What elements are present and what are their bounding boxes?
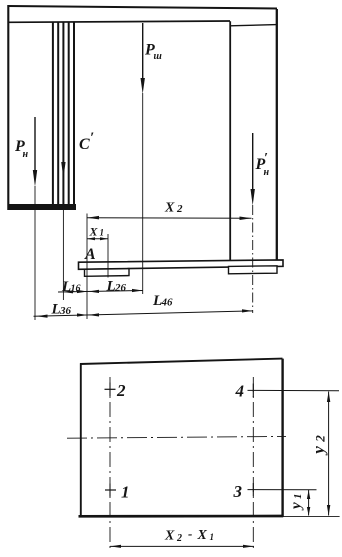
label X2 (upper) <box>164 201 183 216</box>
svg-text:A: A <box>84 246 96 263</box>
ram column line 5 <box>73 23 75 206</box>
svg-text:3: 3 <box>233 482 243 501</box>
force P'_H arrowhead <box>251 189 255 206</box>
label X1 (upper) <box>89 225 105 239</box>
C' axis extension line <box>62 205 64 300</box>
label P'_H <box>255 151 270 178</box>
P_H axis extension line <box>34 186 36 320</box>
L36 left arrow <box>37 315 48 318</box>
label point 1 <box>121 483 130 502</box>
L46 right arrow <box>242 309 253 312</box>
svg-text:y: y <box>309 446 328 456</box>
P_sh axis extension line <box>142 93 144 294</box>
right column inner edge <box>229 21 231 260</box>
svg-text:36: 36 <box>59 305 72 317</box>
point 3 cross vertical <box>252 483 254 496</box>
plate left edge <box>80 363 82 517</box>
svg-text:1: 1 <box>121 483 130 502</box>
dimension X2-X1 line <box>110 545 254 547</box>
svg-text:-: - <box>188 526 192 541</box>
svg-text:C: C <box>79 136 90 153</box>
force P_sh arrowhead <box>141 78 145 94</box>
X2 right arrow <box>240 217 252 221</box>
right pad under rail <box>229 266 278 274</box>
top beam bottom line <box>8 21 230 22</box>
X1 right extension line <box>107 234 109 278</box>
svg-text:1: 1 <box>292 494 304 500</box>
svg-text:2: 2 <box>116 381 126 400</box>
point 4 cross vertical <box>252 384 254 398</box>
svg-text:46: 46 <box>161 297 174 309</box>
P'_H axis extension line (dash-dot) <box>252 205 254 313</box>
force P_H arrowhead <box>33 170 37 187</box>
L26 right arrow <box>132 289 143 292</box>
X2 left arrow <box>87 216 99 220</box>
y1 bottom arrow <box>307 507 310 516</box>
svg-text:4: 4 <box>235 382 245 401</box>
X1 left arrow <box>87 237 95 240</box>
label A <box>84 246 96 263</box>
point 4 cross tick and connector to y2 <box>248 389 340 391</box>
label L16 <box>61 279 81 295</box>
svg-text:′: ′ <box>90 130 94 146</box>
svg-text:2: 2 <box>176 203 183 215</box>
force C' arrowhead <box>61 162 65 178</box>
L16 left arrow <box>63 290 74 293</box>
point 3 cross tick and connector to y1 <box>248 489 317 491</box>
y2 bottom arrow <box>327 505 330 516</box>
label y1 (rotated) <box>289 494 305 512</box>
svg-text:X: X <box>164 529 175 544</box>
label point 3 <box>233 482 243 501</box>
left wall <box>7 5 9 210</box>
svg-text:26: 26 <box>114 282 127 294</box>
rail (guideway bar) <box>79 260 284 269</box>
svg-text:н: н <box>23 149 29 160</box>
bracket bottom bar <box>8 204 77 210</box>
svg-text:ш: ш <box>154 51 162 62</box>
ram column line 3 <box>62 23 64 206</box>
X2-X1 left arrow <box>110 545 121 548</box>
right column top cap <box>230 25 277 26</box>
label point 4 <box>235 382 245 401</box>
dimension row L16-L26 line <box>58 291 143 293</box>
label X2-X1 (bottom) <box>164 526 214 544</box>
label L26 <box>106 279 127 295</box>
ram column line 4 <box>68 23 70 206</box>
right edge of beam and right column outer edge <box>276 9 278 260</box>
point 2 cross vertical <box>109 383 111 397</box>
dimension row L36-L46 line <box>34 311 253 316</box>
plate right edge <box>281 359 283 517</box>
plate bottom edge <box>79 515 284 518</box>
force P'_H line <box>252 133 254 191</box>
L36 right arrow <box>77 313 88 316</box>
vertical center line through 2 and 1 <box>109 377 111 552</box>
ram column line 1 <box>52 23 54 206</box>
svg-text:2: 2 <box>312 435 327 443</box>
svg-text:y: y <box>289 502 305 511</box>
svg-text:1: 1 <box>210 532 215 542</box>
svg-text:н: н <box>264 167 270 178</box>
svg-text:16: 16 <box>71 284 81 295</box>
L46 left arrow <box>89 313 100 316</box>
label y2 (rotated) <box>309 435 328 456</box>
svg-text:2: 2 <box>176 533 182 544</box>
label L46 <box>152 293 173 309</box>
label P_sh <box>144 42 162 63</box>
svg-text:X: X <box>164 201 175 216</box>
left pad under rail <box>85 269 130 277</box>
dimension X1 line <box>87 238 108 240</box>
y2 top arrow <box>327 391 330 402</box>
label point 2 <box>116 381 126 400</box>
svg-text:′: ′ <box>264 151 268 166</box>
plate top edge <box>80 359 283 364</box>
vertical center line through 4 and 3 <box>252 377 254 552</box>
label L36 <box>51 302 72 318</box>
y1 top arrow <box>307 490 310 499</box>
dimension X2 line <box>87 217 252 220</box>
A axis extension line <box>86 214 88 320</box>
L16 right arrow <box>77 290 88 293</box>
ram column line 2 <box>57 23 59 206</box>
bottom edge extension line <box>283 516 340 518</box>
label P_H <box>14 138 29 160</box>
svg-text:1: 1 <box>100 228 105 238</box>
X1 right arrow <box>100 237 108 240</box>
y2 dimension line <box>328 392 330 516</box>
point 2 cross tick <box>105 388 116 390</box>
point 1 cross vertical <box>109 484 111 497</box>
top beam top line <box>8 6 277 9</box>
svg-text:X: X <box>89 225 99 239</box>
y1 dimension line <box>308 490 310 516</box>
L26 left arrow <box>89 290 100 293</box>
point 1 cross tick <box>105 489 116 491</box>
X2-X1 right arrow <box>243 545 254 548</box>
horizontal center line <box>67 436 286 438</box>
svg-text:X: X <box>197 528 208 543</box>
label C' <box>79 130 94 153</box>
force P_sh line <box>142 23 144 80</box>
force P_H line <box>34 117 36 172</box>
